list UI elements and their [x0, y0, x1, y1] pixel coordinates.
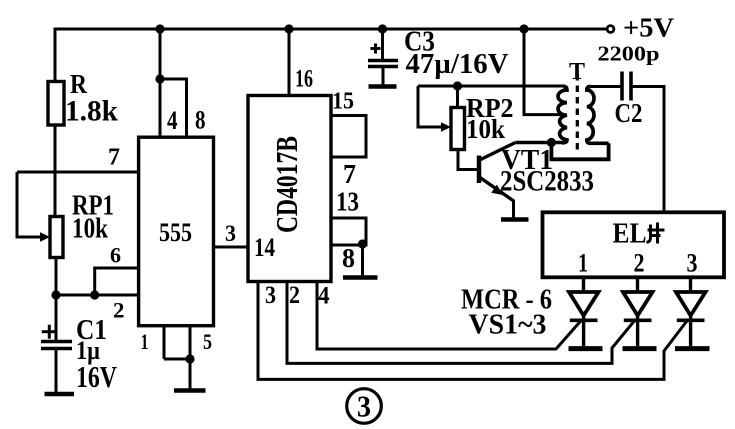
wire: 555 pin2: [56, 294, 139, 297]
svg-text:47µ/16V: 47µ/16V: [406, 49, 509, 80]
svg-text:2: 2: [113, 298, 125, 323]
wire: VT1 emitter to ground: [512, 200, 515, 218]
svg-text:8: 8: [342, 243, 355, 273]
label 片 (CJK drawn): [647, 223, 665, 244]
svg-text:1: 1: [578, 249, 588, 278]
power terminal +5V (open circle): [607, 26, 614, 33]
svg-text:13: 13: [336, 187, 359, 217]
junction dot: RP1/C1/pin2 node: [51, 290, 60, 299]
transistor VT1: [479, 143, 516, 201]
ground (C3): [369, 84, 397, 89]
junction dot: pin8 node: [358, 239, 367, 248]
svg-text:4: 4: [318, 283, 330, 310]
wire: 555 pin8: [160, 79, 187, 137]
wire: rail to transformer primary tap: [524, 29, 563, 115]
ground (VS3): [675, 346, 710, 351]
thyristor VS3: [676, 277, 706, 346]
wire: CD4017B pin4 to VS1 gate: [317, 282, 582, 350]
EL panel: [543, 212, 725, 277]
svg-text:3: 3: [225, 221, 236, 246]
junction dot: rail / C3: [378, 24, 387, 33]
IC CD4017B U2: [248, 96, 331, 282]
junction dot: RP2 top: [453, 81, 462, 90]
svg-text:2: 2: [634, 249, 645, 278]
wire: pin7 feedback loop to RP1 wiper: [17, 172, 42, 237]
svg-text:2SC2833: 2SC2833: [500, 165, 594, 198]
junction dot: rail / CD4017B pin16: [284, 24, 293, 33]
wire: rail to pin4/8 node: [159, 29, 162, 79]
svg-text:14: 14: [254, 233, 275, 262]
figure number 3: [347, 389, 382, 424]
wire: rail to CD4017B pin16: [288, 29, 291, 96]
wire: VT1 collector to T primary bottom: [516, 141, 563, 144]
wire: CD4017B pin3 to VS3 gate: [258, 282, 688, 380]
wire: RP2 to VT1 base: [458, 150, 478, 170]
svg-text:EL: EL: [613, 218, 647, 250]
wire: +5V top rail: [55, 29, 607, 82]
wire: pin1/5 to ground: [189, 359, 192, 389]
svg-text:5: 5: [203, 329, 212, 354]
svg-text:3: 3: [265, 282, 276, 309]
junction dot: pin4/8 node: [155, 74, 164, 83]
capacitor C1 (electrolytic, polarity +): [41, 325, 72, 349]
svg-text:3: 3: [357, 389, 371, 424]
svg-text:15: 15: [332, 89, 354, 115]
IC 555 timer U1: [139, 137, 214, 326]
junction dot: pin1/5 node: [185, 354, 194, 363]
wire: pin8 to ground: [361, 244, 364, 276]
ground (VS1): [569, 346, 603, 351]
svg-text:VS1~3: VS1~3: [469, 310, 547, 341]
wire: RP1 to C1: [55, 258, 58, 342]
capacitor C3 (electrolytic): [368, 29, 398, 85]
thyristor VS1: [569, 277, 599, 346]
svg-text:7: 7: [343, 159, 356, 189]
svg-text:2200p: 2200p: [598, 42, 660, 66]
capacitor C2: [591, 72, 632, 101]
wire: 555 pin7: [17, 171, 139, 174]
svg-text:C2: C2: [615, 98, 643, 128]
wire: C1 to ground: [55, 349, 58, 394]
potentiometer RP2: [418, 86, 465, 150]
svg-text:8: 8: [195, 106, 206, 135]
junction dot: rail / transformer tap: [519, 24, 528, 33]
wire: 555 pin6: [95, 268, 139, 295]
wire: 555 pin4: [159, 79, 162, 137]
svg-text:4: 4: [167, 106, 178, 135]
wire: pin15 to pin7 loop: [331, 116, 366, 158]
svg-text:6: 6: [110, 243, 121, 268]
wire: 555 pin1: [163, 326, 166, 359]
transformer T: [551, 74, 608, 159]
wire: R to RP1: [54, 125, 57, 217]
svg-text:1.8k: 1.8k: [65, 95, 118, 128]
wire: 555 pin5: [164, 326, 190, 359]
svg-text:10k: 10k: [72, 213, 109, 245]
ground (C1): [45, 392, 75, 397]
ground (VT1 emitter): [501, 217, 529, 222]
junction dot: collector / primary / secondary return: [547, 138, 556, 147]
svg-text:16V: 16V: [76, 359, 117, 394]
svg-text:+5V: +5V: [623, 13, 675, 43]
svg-text:3: 3: [687, 249, 698, 278]
svg-text:16: 16: [295, 66, 313, 93]
wire: 555 pin3 to CD4017B pin14: [214, 246, 249, 249]
junction dot: rail / 555 pins 4-8: [155, 24, 164, 33]
thyristor VS2: [623, 277, 653, 346]
svg-text:7: 7: [108, 145, 120, 171]
svg-text:555: 555: [159, 218, 192, 247]
svg-text:10k: 10k: [466, 114, 505, 144]
wire: CD4017B pin2 to VS2 gate: [287, 282, 636, 364]
svg-text:2: 2: [289, 282, 300, 309]
junction dot: pin6 drop on pin2 wire: [90, 290, 99, 299]
ground (CD4017B pin8/13): [343, 275, 378, 280]
ground (VS2): [623, 346, 657, 351]
resistor R: [48, 82, 64, 126]
wire: feedback (T primary top) to RP2 top: [418, 85, 565, 88]
wire: C2 to EL panel: [632, 87, 665, 213]
wire: pin13 to pin8 loop: [331, 218, 366, 245]
ground (555): [174, 388, 206, 393]
svg-text:T: T: [569, 59, 585, 85]
svg-text:1: 1: [141, 329, 149, 354]
svg-text:CD4017B: CD4017B: [269, 136, 304, 233]
potentiometer RP1: [40, 217, 63, 258]
